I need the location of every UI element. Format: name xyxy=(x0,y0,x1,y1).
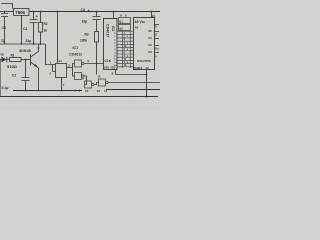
svg-text:130k: 130k xyxy=(80,39,87,43)
svg-text:3DK45: 3DK45 xyxy=(19,49,31,53)
svg-text:OSC/VDD: OSC/VDD xyxy=(137,59,152,63)
gate G3 xyxy=(83,77,99,94)
svg-text:IC2: IC2 xyxy=(111,26,115,31)
svg-text:0.1µ: 0.1µ xyxy=(2,86,9,90)
svg-text:D2: D2 xyxy=(149,43,153,47)
gate G2 xyxy=(73,68,87,93)
svg-text:C3: C3 xyxy=(81,8,85,12)
capacitor C3 xyxy=(81,8,101,32)
gate G4 xyxy=(97,75,161,94)
svg-text:D: D xyxy=(155,33,157,37)
svg-text:CD4017: CD4017 xyxy=(106,24,110,37)
node rail junctions xyxy=(33,11,153,13)
svg-text:1k: 1k xyxy=(44,29,48,33)
capacitor C2 xyxy=(23,12,39,45)
svg-text:C2: C2 xyxy=(23,27,27,31)
resistor R3 130k xyxy=(80,32,99,75)
wire ground rail mid xyxy=(13,90,160,91)
IC3 speech chip xyxy=(134,18,155,71)
wire left ground bus xyxy=(0,43,46,45)
wire +6V top rail xyxy=(29,11,160,13)
svg-text:GND: GND xyxy=(134,66,143,70)
svg-text:D3: D3 xyxy=(149,50,153,54)
wire IC3 right pins xyxy=(155,25,160,53)
op IC1 gate box xyxy=(56,64,67,78)
svg-text:CLK: CLK xyxy=(105,59,112,63)
svg-text:V: V xyxy=(38,47,40,51)
svg-text:R3: R3 xyxy=(85,33,89,37)
wire input stub to regulator xyxy=(0,11,14,13)
wire pin14 supply xyxy=(57,12,59,64)
resistor R1 510 ohm base xyxy=(7,54,21,70)
wire pin7 ground xyxy=(61,78,63,91)
wire pin24 supply xyxy=(151,12,153,18)
svg-text:Q2: Q2 xyxy=(119,27,123,31)
svg-text:1µ: 1µ xyxy=(1,39,5,43)
svg-text:12: 12 xyxy=(146,66,150,70)
svg-text:R1: R1 xyxy=(11,54,15,58)
wire ground rail bottom xyxy=(0,96,158,98)
wire 7806 ground lead xyxy=(21,16,23,45)
svg-text:13: 13 xyxy=(97,89,101,93)
bus ladder between IC2 and IC3 xyxy=(114,18,133,69)
svg-text:VSS: VSS xyxy=(104,67,109,70)
diode VD xyxy=(0,53,10,63)
resistor R2 collector load xyxy=(39,12,48,45)
IC2 counter CD4017 xyxy=(104,19,118,70)
svg-text:22µ: 22µ xyxy=(26,39,32,43)
svg-text:Ou: Ou xyxy=(155,47,159,51)
wire input L-bend top-left xyxy=(1,4,13,9)
svg-text:A0: A0 xyxy=(135,26,139,30)
regulator IC 7806 xyxy=(14,9,30,16)
svg-text:7806: 7806 xyxy=(15,10,25,15)
svg-text:24: 24 xyxy=(152,14,156,18)
svg-text:R2: R2 xyxy=(44,22,48,26)
svg-text:D1: D1 xyxy=(149,36,153,40)
svg-text:14: 14 xyxy=(58,59,62,63)
gate G1 xyxy=(73,59,104,68)
svg-text:D: D xyxy=(155,25,157,29)
svg-text:A9 Vcc: A9 Vcc xyxy=(135,20,146,24)
wire base xyxy=(21,59,31,61)
svg-text:Q1: Q1 xyxy=(119,19,123,23)
svg-text:V: V xyxy=(155,55,157,59)
svg-text:VD: VD xyxy=(0,53,4,57)
svg-text:10: 10 xyxy=(85,89,89,93)
wire left edge down xyxy=(0,60,2,97)
svg-text:IC1: IC1 xyxy=(73,46,79,50)
svg-text:C1: C1 xyxy=(12,73,16,77)
svg-text:CD4011: CD4011 xyxy=(69,53,82,57)
wire IC3 ground lead xyxy=(146,70,148,97)
capacitor C6 xyxy=(1,12,8,45)
wire IC2 bottom pin to ground link xyxy=(116,70,147,75)
svg-text:510Ω: 510Ω xyxy=(7,64,18,69)
wire pin3 output xyxy=(67,67,73,69)
svg-text:10µ: 10µ xyxy=(82,20,88,24)
capacitor C1 xyxy=(2,59,30,91)
wire collector node to IC1 input xyxy=(46,44,56,72)
wire bus pin drop from rail xyxy=(113,12,115,19)
svg-text:D0: D0 xyxy=(149,29,153,33)
svg-text:C6: C6 xyxy=(2,26,6,30)
transistor Q1 3DK4 xyxy=(19,44,40,91)
